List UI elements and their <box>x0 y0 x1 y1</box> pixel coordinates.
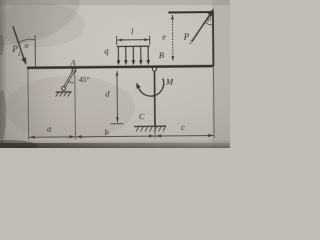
dimension c line <box>156 134 214 137</box>
svg-text:c: c <box>181 122 185 132</box>
svg-text:M: M <box>165 76 174 86</box>
node B pin circle <box>152 67 156 71</box>
dimension d line <box>116 71 118 122</box>
support C ground <box>134 125 166 127</box>
svg-text:45°: 45° <box>79 75 90 84</box>
distributed load q top bar <box>117 45 150 47</box>
force P1 arrow <box>13 26 26 65</box>
dimension l ticks <box>116 36 118 45</box>
svg-text:A: A <box>69 57 76 67</box>
svg-text:b: b <box>105 127 109 137</box>
svg-text:2: 2 <box>189 40 192 46</box>
svg-text:B: B <box>159 50 164 60</box>
distributed load arrows <box>118 46 148 61</box>
dimension d bottom tick <box>110 123 123 125</box>
wire member B to C <box>153 71 156 126</box>
svg-text:a: a <box>47 123 51 133</box>
svg-text:1: 1 <box>18 52 21 58</box>
svg-text:C: C <box>139 111 145 121</box>
wire extension below C <box>154 126 156 138</box>
svg-text:β: β <box>206 13 211 22</box>
paper background <box>0 0 230 148</box>
wire top member <box>168 11 213 13</box>
dimension e line <box>171 15 173 61</box>
wire right vertical member <box>212 12 215 66</box>
support A ground <box>56 91 72 93</box>
dimension l line with arrows <box>117 39 149 41</box>
angle alpha arc <box>18 39 35 43</box>
angle beta arc <box>206 23 213 25</box>
support A pin circle <box>72 68 76 72</box>
wire extension line below left beam end <box>27 69 30 140</box>
support A lower pin <box>62 87 66 91</box>
support A inclined link <box>63 70 74 88</box>
moment M arc <box>139 78 164 96</box>
wire right extension line below beam <box>212 67 215 138</box>
force P2 arrow <box>191 15 210 42</box>
dimension a line <box>29 136 75 138</box>
wire extension line below A <box>74 70 77 139</box>
angle 45 arc <box>68 81 74 83</box>
dimension b line <box>76 135 155 138</box>
svg-text:e: e <box>162 32 166 42</box>
node left-end vertical reference line <box>34 35 36 66</box>
wire beam: main horizontal member <box>27 66 213 68</box>
